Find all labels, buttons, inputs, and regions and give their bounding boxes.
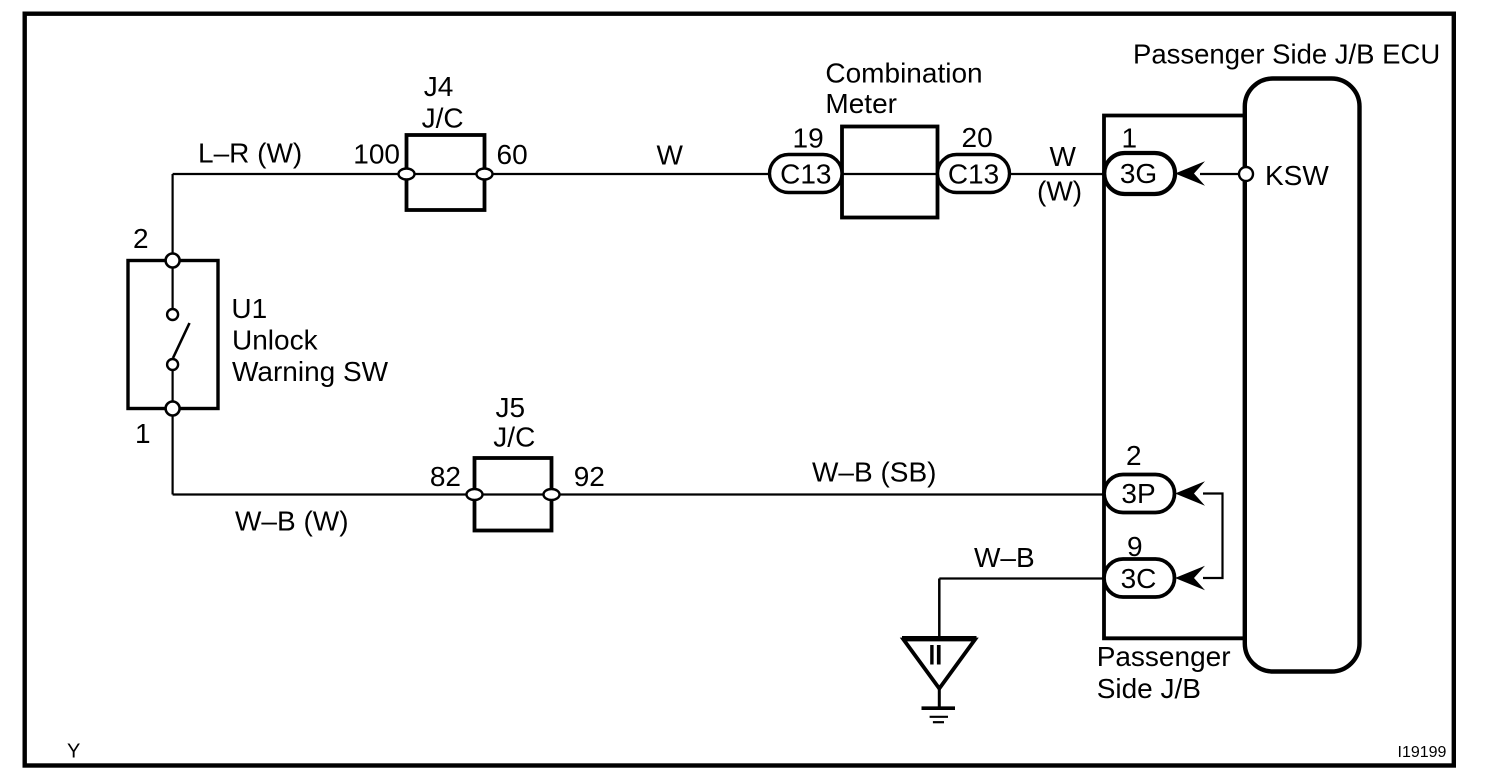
svg-text:100: 100 [353, 139, 400, 170]
wire: bottom rail W-B to 3P [173, 493, 1104, 495]
svg-text:20: 20 [962, 122, 993, 153]
svg-text:1: 1 [1122, 123, 1138, 154]
combination meter box [842, 127, 938, 218]
svg-text:W–B: W–B [974, 542, 1035, 573]
svg-text:W: W [657, 140, 684, 171]
svg-text:19: 19 [793, 123, 824, 154]
svg-text:Passenger: Passenger [1097, 641, 1231, 672]
svg-text:Passenger Side J/B ECU: Passenger Side J/B ECU [1133, 39, 1440, 70]
svg-text:3C: 3C [1121, 563, 1157, 594]
connector 3G pin 1 [1104, 153, 1175, 194]
svg-text:2: 2 [133, 223, 149, 254]
svg-text:1: 1 [135, 418, 151, 449]
svg-text:82: 82 [430, 461, 461, 492]
svg-text:W: W [1050, 141, 1077, 172]
svg-text:U1: U1 [231, 293, 267, 324]
connector 3P pin 2 [1104, 475, 1175, 513]
ground symbol [902, 638, 977, 722]
svg-text:Warning SW: Warning SW [232, 356, 389, 387]
svg-text:J5: J5 [496, 392, 526, 423]
connector C13 pin 20 (right of meter) [938, 155, 1010, 193]
Passenger Side J/B box [1104, 116, 1246, 639]
J5 pin 82 [467, 489, 483, 500]
svg-text:Y: Y [67, 741, 80, 763]
svg-text:9: 9 [1127, 531, 1143, 562]
svg-text:I19199: I19199 [1398, 744, 1447, 761]
svg-text:Side J/B: Side J/B [1097, 673, 1201, 704]
U1 pin 2 terminal [166, 254, 180, 268]
svg-text:Meter: Meter [825, 88, 897, 119]
U1 switch blade [173, 323, 190, 358]
U1 internal wire upper [172, 266, 174, 310]
svg-text:W–B (W): W–B (W) [235, 506, 349, 537]
svg-text:3P: 3P [1121, 478, 1155, 509]
U1 switch contact upper [167, 309, 178, 320]
connector C13 pin 19 (left of meter) [770, 155, 843, 193]
svg-text:(W): (W) [1037, 176, 1082, 207]
wire: ground branch vertical [938, 579, 941, 639]
node KSW [1239, 167, 1253, 181]
svg-text:C13: C13 [780, 159, 831, 190]
svg-text:2: 2 [1126, 440, 1142, 471]
arrow into 3P [1175, 481, 1205, 505]
J4 pin 100 [399, 169, 415, 180]
svg-text:J4: J4 [424, 71, 454, 102]
svg-text:Unlock: Unlock [232, 324, 319, 355]
svg-text:Combination: Combination [825, 58, 982, 89]
U1 internal wire lower [172, 369, 174, 404]
svg-text:J/C: J/C [493, 422, 535, 453]
U1 pin 1 terminal [166, 402, 180, 416]
svg-text:C13: C13 [948, 159, 999, 190]
U1 switch contact lower [167, 359, 178, 370]
svg-text:W–B (SB): W–B (SB) [812, 457, 936, 488]
Passenger Side J/B ECU box [1245, 79, 1360, 672]
J4 pin 60 [477, 169, 493, 180]
junction connector J5 box [475, 458, 552, 531]
J5 pin 92 [544, 489, 560, 500]
svg-text:KSW: KSW [1265, 160, 1329, 191]
switch U1 box [128, 261, 218, 409]
svg-text:92: 92 [574, 461, 605, 492]
arrow into 3G [1175, 161, 1205, 185]
svg-text:J/C: J/C [422, 103, 464, 134]
wire: KSW stub to 3G arrow [1200, 173, 1246, 175]
wire: drop from U1 pin 1 to bottom rail [172, 408, 174, 495]
wire: link from 3P arrow down to 3C arrow [1203, 494, 1223, 579]
wire: ground branch horizontal from 3C [939, 577, 1104, 579]
junction connector J4 box [407, 135, 485, 210]
connector 3C pin 9 [1104, 559, 1175, 597]
svg-text:60: 60 [497, 139, 528, 170]
arrow into 3C [1175, 566, 1205, 590]
svg-text:3G: 3G [1120, 158, 1157, 189]
wire: riser from top rail to U1 pin 2 [172, 174, 174, 261]
svg-text:L–R (W): L–R (W) [198, 138, 302, 169]
wire: top rail from U1 to 3G [173, 173, 1104, 175]
